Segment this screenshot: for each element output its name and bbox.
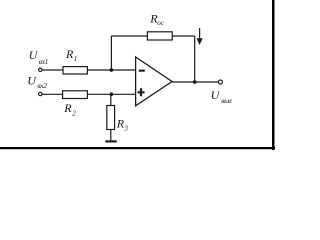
arrow current direction — [199, 28, 201, 39]
input terminal 2 — [39, 92, 42, 95]
wire R1 to op-amp inverting input — [87, 69, 135, 71]
border right — [272, 0, 275, 150]
op-amp minus sign — [139, 70, 145, 72]
svg-text:U: U — [29, 48, 39, 62]
wire feedback rail left — [111, 35, 147, 37]
wire down to output node — [194, 36, 196, 82]
svg-text:U: U — [27, 74, 37, 88]
svg-text:R: R — [65, 47, 74, 61]
wire input1 to R1 — [42, 69, 63, 71]
svg-text:U: U — [211, 88, 221, 102]
resistor R1 — [63, 67, 87, 74]
output node junction dot — [193, 80, 197, 84]
svg-text:3: 3 — [123, 124, 128, 132]
svg-text:ос: ос — [157, 19, 165, 27]
wire node A up to feedback rail — [110, 36, 112, 70]
input terminal 1 — [39, 68, 42, 71]
resistor R3 — [107, 106, 115, 130]
node B junction dot — [110, 92, 114, 96]
wire feedback rail right — [172, 35, 195, 37]
wire op-amp output — [172, 81, 218, 83]
resistor R2 — [63, 91, 88, 99]
wire input2 to R2 — [42, 93, 62, 95]
svg-text:вых: вых — [221, 96, 233, 105]
svg-text:вх2: вх2 — [37, 81, 47, 90]
svg-text:R: R — [63, 101, 72, 115]
arrowhead — [197, 38, 203, 45]
svg-text:1: 1 — [74, 55, 78, 63]
wire node B down to R3 — [110, 94, 112, 105]
output terminal — [218, 80, 222, 84]
resistor Roc — [147, 32, 172, 40]
ground — [105, 140, 116, 142]
wire R3 to ground — [110, 130, 112, 141]
svg-text:вх1: вх1 — [39, 57, 48, 66]
op-amp U1 — [136, 57, 172, 106]
node A junction dot — [110, 68, 114, 72]
border bottom — [0, 147, 275, 149]
wire R2 to op-amp non-inverting input — [87, 93, 135, 95]
op-amp plus sign — [138, 88, 145, 96]
svg-text:2: 2 — [72, 110, 76, 118]
